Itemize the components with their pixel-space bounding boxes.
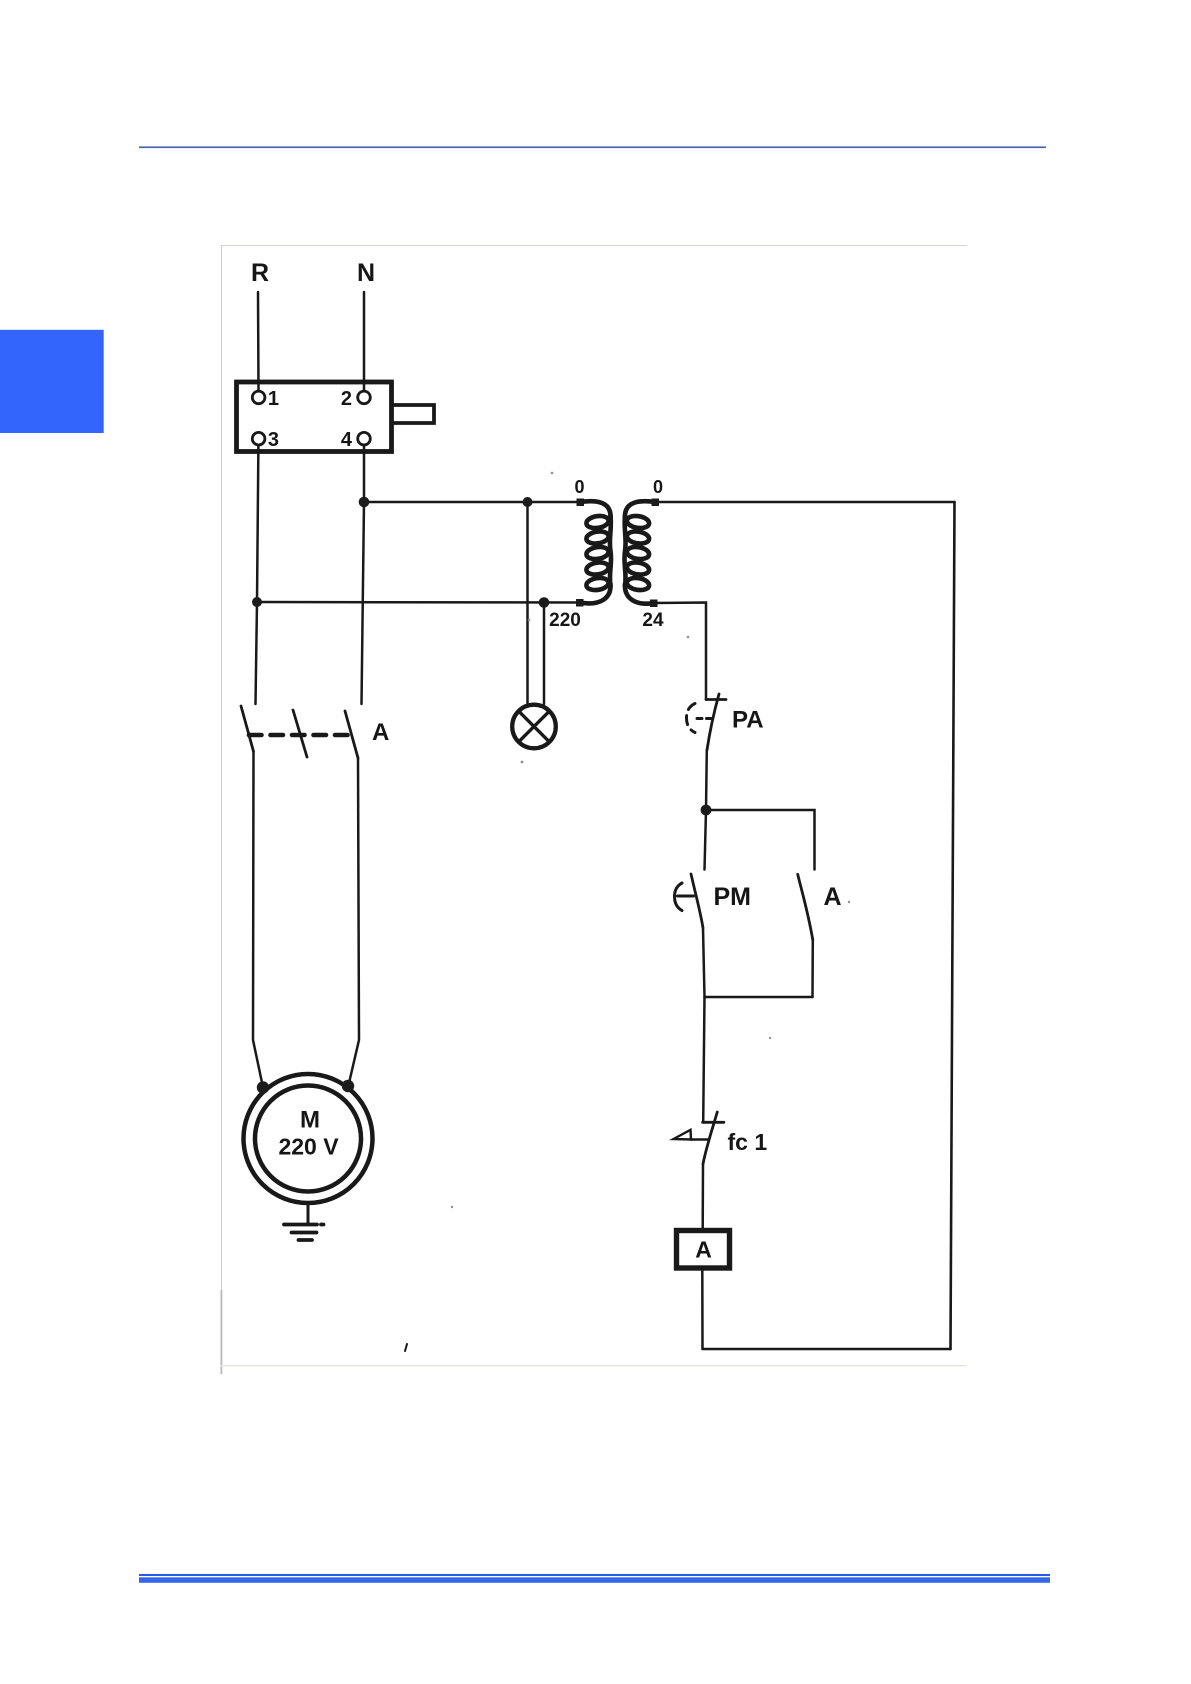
footer thick rule — [139, 1577, 1050, 1583]
wire secondary 24 to PA branch corner — [654, 603, 706, 700]
motor M body — [244, 1074, 373, 1203]
junction lamp left tap — [523, 497, 533, 507]
right rail wire — [951, 502, 955, 1349]
junction lamp right tap — [539, 597, 550, 608]
contact A main right pole arm — [345, 711, 358, 758]
limit switch fc1 moving arm — [703, 1112, 717, 1164]
pin number 2 — [341, 388, 352, 410]
wire coil A to bottom rail — [701, 1269, 704, 1350]
switch S1 actuator plunger — [392, 405, 434, 423]
svg-text:A: A — [824, 883, 842, 911]
transformer T1 primary terminal dots — [577, 499, 585, 507]
ground symbol — [284, 1225, 324, 1241]
lamp H1 — [512, 705, 556, 749]
wire N branch to transformer primary top (node 0) — [364, 501, 580, 504]
label PM — [714, 883, 752, 911]
pushbutton PA actuator — [687, 704, 713, 733]
svg-text:fc 1: fc 1 — [728, 1129, 768, 1155]
wire branch bottom — [705, 996, 813, 999]
wire A aux bottom — [811, 940, 814, 997]
coil A box — [677, 1231, 730, 1269]
svg-text:M: M — [300, 1107, 320, 1134]
header rule — [139, 146, 1046, 148]
pin number 4 — [341, 429, 353, 451]
junction on N branch — [359, 497, 370, 508]
scanned figure frame — [221, 245, 968, 1374]
scan speckles — [451, 472, 850, 1209]
label M — [300, 1107, 320, 1134]
limit switch fc1 actuator — [674, 1130, 709, 1140]
label PA — [732, 707, 764, 734]
svg-text:PA: PA — [732, 707, 764, 734]
terminal 4 — [358, 432, 371, 445]
transformer T1 secondary winding — [624, 501, 655, 603]
svg-text:N: N — [357, 259, 375, 287]
switch S1 box — [237, 382, 392, 452]
junction on R line — [252, 597, 262, 607]
pushbutton PA (NC) fixed bar — [706, 698, 726, 701]
motor terminal left — [257, 1081, 269, 1093]
svg-text:0: 0 — [574, 477, 584, 497]
terminal 1 — [252, 391, 265, 404]
left blue sidebar block — [0, 330, 104, 433]
contact A aux (NO) moving arm — [798, 874, 813, 940]
label 24 — [642, 610, 664, 631]
svg-text:220 V: 220 V — [278, 1134, 339, 1160]
wire fc1 to coil A — [701, 1164, 704, 1230]
terminal 3 — [252, 432, 265, 445]
label 220 — [549, 610, 581, 631]
wire left pole to motor — [253, 752, 263, 1086]
svg-text:PM: PM — [714, 883, 752, 911]
node R label — [251, 259, 269, 287]
bottom rail wire — [703, 1348, 951, 1351]
label fc 1 — [728, 1129, 768, 1155]
wire terminal 4 down to contact A right pole — [362, 445, 365, 704]
wire R supply to terminal 1 — [257, 292, 260, 391]
motor terminal right — [342, 1080, 354, 1092]
pushbutton PA (NC) moving arm — [707, 694, 719, 750]
wire N supply to terminal 2 — [363, 292, 366, 391]
svg-text:4: 4 — [341, 429, 353, 451]
contact A main linkage dashed — [249, 733, 356, 738]
wire PM bottom — [703, 928, 705, 997]
svg-text:R: R — [251, 259, 269, 287]
transformer T1 secondary terminal dots — [652, 499, 660, 507]
label 0 primary — [574, 477, 584, 497]
pin number 3 — [268, 429, 279, 451]
wire lamp left feed — [526, 502, 529, 705]
wire terminal 3 down to contact A left pole — [256, 445, 259, 704]
terminal 2 — [358, 391, 371, 404]
label 0 secondary — [653, 477, 663, 497]
pushbutton PM (NO) moving arm — [691, 874, 703, 928]
svg-text:220: 220 — [549, 610, 581, 631]
limit switch fc1 fixed bar — [703, 1121, 724, 1124]
svg-text:0: 0 — [653, 477, 663, 497]
wire R branch to transformer primary bottom (node 220) — [257, 601, 580, 604]
node N label — [357, 259, 375, 287]
svg-text:2: 2 — [341, 388, 352, 410]
label A main — [372, 719, 389, 746]
pin number 1 — [268, 388, 279, 410]
wire lamp right feed — [543, 603, 546, 705]
label A coil — [695, 1237, 712, 1263]
wire junction to PM top — [705, 810, 707, 870]
wire PM branch to fc1 — [703, 997, 704, 1122]
contact A main left pole arm — [241, 706, 254, 752]
svg-text:A: A — [372, 719, 389, 746]
svg-text:3: 3 — [268, 429, 279, 451]
label A aux — [824, 883, 842, 911]
footer thin rule — [139, 1574, 1050, 1576]
wire secondary 0 to right rail — [656, 501, 955, 504]
wire branch top to contact A aux — [706, 810, 815, 870]
junction PM branch — [701, 805, 712, 816]
svg-text:24: 24 — [642, 610, 664, 631]
wire right pole to motor — [349, 758, 359, 1083]
transformer T1 primary winding — [580, 501, 611, 603]
stray mark — [405, 1344, 407, 1351]
label 220 V — [278, 1134, 339, 1160]
wire PA to junction — [705, 750, 708, 810]
contact A main middle slash — [293, 710, 307, 757]
svg-text:1: 1 — [268, 388, 279, 410]
svg-text:A: A — [695, 1237, 712, 1263]
wire motor to ground — [307, 1203, 310, 1224]
pushbutton PM actuator — [675, 883, 694, 911]
